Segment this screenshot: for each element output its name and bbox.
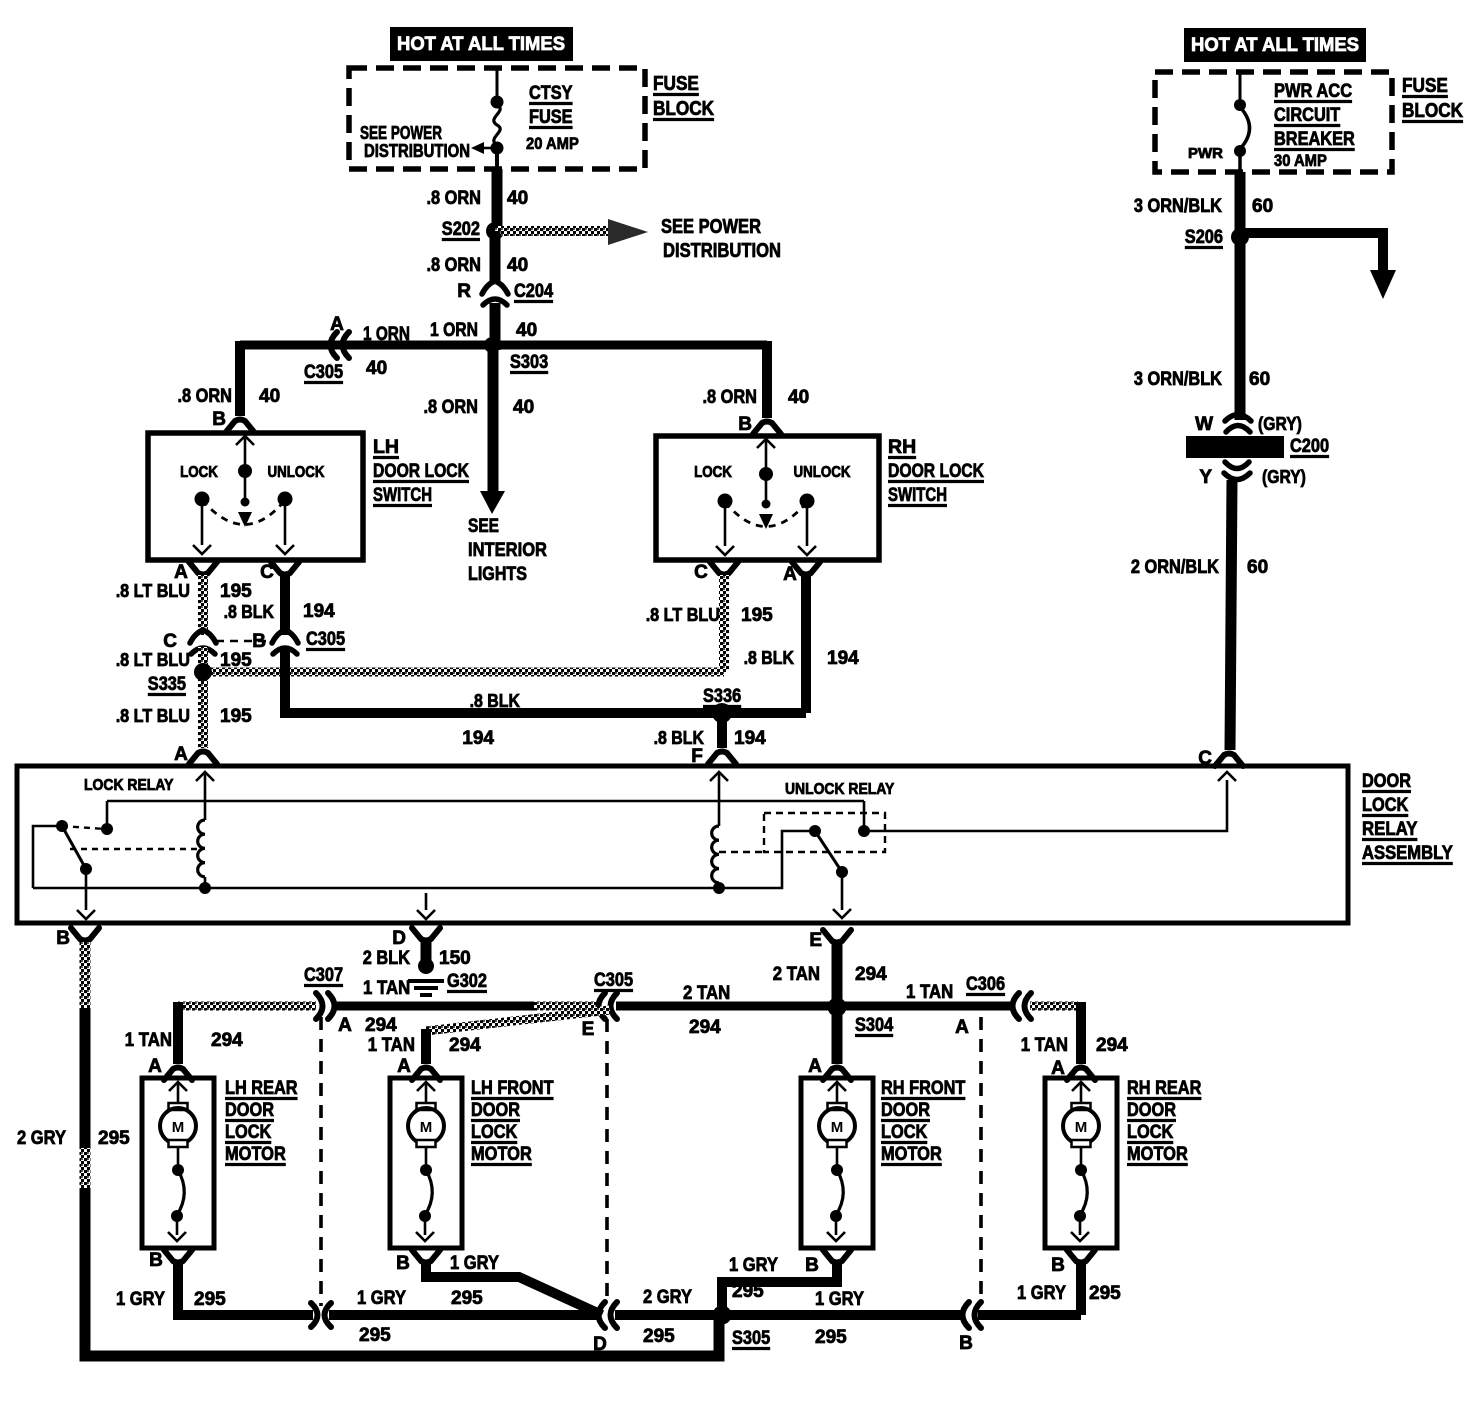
- svg-text:S202: S202: [442, 219, 480, 240]
- svg-text:LOCK: LOCK: [881, 1122, 928, 1143]
- splice S335: [194, 663, 212, 681]
- RH switch internal contacts: [757, 439, 775, 448]
- wire (LH rear B to connector): [178, 1310, 313, 1315]
- PWR ACC circuit breaker symbol: [1239, 74, 1242, 102]
- svg-text:294: 294: [211, 1030, 243, 1051]
- svg-text:DOOR: DOOR: [1362, 771, 1411, 792]
- connector C305 pin D (lower): [599, 1302, 606, 1328]
- svg-text:1 TAN: 1 TAN: [1021, 1035, 1068, 1056]
- LH FRONT motor M symbol: [417, 1103, 436, 1110]
- svg-text:294: 294: [855, 964, 887, 985]
- relay wire contact to pin C: [864, 780, 1227, 831]
- wire .8 ORN 40 (C305 to LH switch B): [235, 341, 245, 416]
- svg-text:LH REAR: LH REAR: [225, 1078, 298, 1099]
- svg-text:1 GRY: 1 GRY: [450, 1253, 499, 1274]
- svg-text:1 TAN: 1 TAN: [368, 1035, 415, 1056]
- svg-text:M: M: [831, 1119, 844, 1136]
- wire .8 ORN 40 (fuse to S202): [492, 169, 503, 228]
- svg-text:DOOR: DOOR: [471, 1100, 520, 1121]
- svg-text:1 GRY: 1 GRY: [116, 1289, 165, 1310]
- arrow branch from S206: [1240, 233, 1383, 272]
- svg-text:C305: C305: [306, 629, 345, 650]
- svg-text:40: 40: [259, 386, 280, 407]
- connector C200 body: [1186, 436, 1284, 458]
- wire 1 GRY 295 (LH rear B down): [173, 1263, 183, 1315]
- svg-text:60: 60: [1249, 369, 1270, 390]
- svg-text:.8 BLK: .8 BLK: [654, 727, 705, 748]
- wire 1 GRY 295 (S305 to RH boundary): [722, 1310, 962, 1320]
- door boundary dashed line (LH front): [605, 1019, 609, 1300]
- svg-text:E: E: [582, 1019, 595, 1040]
- svg-text:HOT AT ALL TIMES: HOT AT ALL TIMES: [1191, 34, 1359, 56]
- svg-text:2 BLK: 2 BLK: [363, 948, 410, 969]
- fuse block dashed box (right): [1155, 72, 1392, 172]
- svg-text:S305: S305: [732, 1328, 771, 1349]
- svg-text:DOOR LOCK: DOOR LOCK: [888, 460, 984, 482]
- relay wire NC to unlock contact: [107, 800, 864, 803]
- wire 3 ORN/BLK 60 (S206 to C200 W): [1235, 237, 1246, 420]
- svg-text:1 GRY: 1 GRY: [815, 1289, 864, 1310]
- svg-text:B: B: [56, 928, 70, 949]
- svg-text:.8 ORN: .8 ORN: [427, 255, 482, 276]
- svg-text:40: 40: [516, 320, 537, 341]
- RH REAR motor M symbol: [1072, 1103, 1091, 1110]
- svg-text:.8 LT BLU: .8 LT BLU: [646, 604, 720, 625]
- svg-text:RH REAR: RH REAR: [1127, 1078, 1202, 1099]
- svg-text:1 TAN: 1 TAN: [125, 1030, 172, 1051]
- banner HOT AT ALL TIMES (left): [390, 27, 573, 61]
- svg-text:UNLOCK: UNLOCK: [794, 464, 852, 481]
- LH REAR door lock motor box: [142, 1078, 214, 1248]
- unlock relay coil: [712, 826, 719, 883]
- svg-text:194: 194: [827, 648, 859, 669]
- svg-text:C305: C305: [594, 970, 633, 991]
- svg-text:3 ORN/BLK: 3 ORN/BLK: [1134, 196, 1222, 217]
- svg-text:294: 294: [365, 1015, 397, 1036]
- svg-text:C305: C305: [304, 362, 343, 383]
- door boundary dashed line (LH rear): [319, 1017, 323, 1306]
- unlock relay switch feed: [719, 831, 812, 888]
- wire .8 LT BLU 195 (C305 to S335): [198, 647, 208, 672]
- svg-text:SWITCH: SWITCH: [888, 484, 947, 506]
- wire 2 GRY 295 (relay B down left side): [80, 942, 91, 1012]
- svg-text:.8 BLK: .8 BLK: [744, 647, 795, 668]
- wire 1 GRY 295 (to C305 D): [329, 1310, 597, 1320]
- svg-text:.8 BLK: .8 BLK: [224, 601, 275, 622]
- svg-text:B: B: [252, 631, 266, 652]
- lock relay pin A arrow: [196, 772, 214, 781]
- svg-text:LH: LH: [373, 436, 399, 458]
- splice S202: [486, 222, 504, 240]
- wire 2 ORN/BLK 60 (C200 to relay C): [1230, 480, 1232, 750]
- svg-text:B: B: [396, 1253, 410, 1274]
- svg-text:CIRCUIT: CIRCUIT: [1274, 105, 1341, 126]
- RH FRONT motor internal switch: [836, 1147, 839, 1166]
- svg-text:INTERIOR: INTERIOR: [468, 540, 547, 561]
- svg-text:1 TAN: 1 TAN: [363, 978, 410, 999]
- fuse block dashed box (left): [349, 68, 645, 169]
- svg-text:195: 195: [220, 706, 252, 727]
- svg-text:A: A: [338, 1015, 352, 1036]
- wire .8 LT BLU 195 (LH switch A): [198, 575, 208, 635]
- wire .8 BLK 194 (S336 to relay F): [717, 713, 727, 748]
- svg-text:MOTOR: MOTOR: [881, 1144, 942, 1165]
- svg-text:60: 60: [1252, 196, 1273, 217]
- svg-text:195: 195: [741, 605, 773, 626]
- svg-text:B: B: [959, 1333, 973, 1354]
- svg-text:S335: S335: [148, 674, 187, 695]
- svg-text:BLOCK: BLOCK: [653, 98, 715, 120]
- svg-text:M: M: [1075, 1119, 1088, 1136]
- svg-text:LH FRONT: LH FRONT: [471, 1078, 554, 1099]
- splice S336: [712, 703, 732, 723]
- svg-text:(GRY): (GRY): [1262, 467, 1306, 487]
- svg-text:A: A: [955, 1017, 969, 1038]
- svg-text:B: B: [805, 1255, 819, 1276]
- svg-text:195: 195: [220, 581, 252, 602]
- svg-text:RH: RH: [888, 436, 916, 458]
- svg-text:20 AMP: 20 AMP: [526, 134, 579, 153]
- svg-text:LOCK RELAY: LOCK RELAY: [84, 777, 174, 794]
- arrow S202 to power distribution: [495, 226, 612, 236]
- svg-text:D: D: [392, 928, 406, 949]
- svg-text:CTSY: CTSY: [529, 83, 573, 104]
- svg-text:DISTRIBUTION: DISTRIBUTION: [364, 141, 470, 161]
- svg-text:A: A: [148, 1056, 162, 1077]
- svg-text:1 GRY: 1 GRY: [1017, 1283, 1066, 1304]
- wire .8 LT BLU 195 (S335 to relay A): [198, 672, 208, 748]
- svg-text:B: B: [212, 409, 226, 430]
- svg-text:A: A: [174, 744, 188, 765]
- svg-text:40: 40: [788, 387, 809, 408]
- svg-text:295: 295: [732, 1281, 764, 1302]
- svg-text:1 GRY: 1 GRY: [729, 1255, 778, 1276]
- svg-text:LOCK: LOCK: [225, 1122, 272, 1143]
- svg-text:PWR ACC: PWR ACC: [1274, 81, 1352, 102]
- wire .8 BLK 194 (C305 B to S336): [285, 647, 806, 713]
- svg-text:M: M: [420, 1119, 433, 1136]
- svg-text:.8 ORN: .8 ORN: [427, 188, 482, 209]
- lock relay coil: [198, 820, 205, 877]
- svg-text:C307: C307: [304, 965, 343, 986]
- wire 1 ORN 40 (C204 to S303): [490, 303, 501, 350]
- wire (S304 down to RH front motor): [832, 1007, 843, 1064]
- splice S303: [484, 337, 500, 353]
- svg-text:40: 40: [507, 188, 528, 209]
- svg-text:30 AMP: 30 AMP: [1274, 151, 1327, 170]
- svg-text:295: 295: [815, 1327, 847, 1348]
- svg-text:295: 295: [451, 1288, 483, 1309]
- svg-text:(GRY): (GRY): [1258, 414, 1302, 434]
- svg-text:2 GRY: 2 GRY: [643, 1287, 692, 1308]
- svg-text:294: 294: [449, 1035, 481, 1056]
- svg-text:SWITCH: SWITCH: [373, 484, 432, 506]
- svg-text:40: 40: [366, 358, 387, 379]
- ground G302: [418, 958, 434, 974]
- wire 1 TAN 294 (C307 to C305): [337, 1002, 534, 1011]
- splice S206: [1231, 228, 1249, 246]
- LH door lock switch U-LH box: [148, 433, 363, 560]
- svg-text:E: E: [809, 930, 822, 951]
- svg-text:LOCK: LOCK: [471, 1122, 518, 1143]
- door lock relay assembly box: [17, 766, 1348, 923]
- unlock relay arm to pin E: [815, 831, 842, 872]
- svg-text:W: W: [1195, 414, 1213, 435]
- door boundary dashed (C305): [216, 640, 270, 643]
- svg-text:.8 ORN: .8 ORN: [178, 386, 233, 407]
- svg-text:S304: S304: [855, 1015, 894, 1036]
- svg-text:1 GRY: 1 GRY: [357, 1288, 406, 1309]
- svg-text:DISTRIBUTION: DISTRIBUTION: [663, 240, 781, 262]
- svg-text:194: 194: [303, 601, 335, 622]
- svg-text:DOOR: DOOR: [225, 1100, 274, 1121]
- wire 1 TAN 294 (LH rear feed): [178, 1002, 316, 1011]
- lock relay arm to pin B: [62, 826, 86, 869]
- svg-text:295: 295: [98, 1128, 130, 1149]
- svg-text:LOCK: LOCK: [694, 464, 732, 481]
- svg-text:A: A: [808, 1056, 822, 1077]
- svg-text:UNLOCK RELAY: UNLOCK RELAY: [785, 781, 895, 798]
- svg-text:LOCK: LOCK: [1362, 795, 1409, 816]
- svg-text:RH FRONT: RH FRONT: [881, 1078, 966, 1099]
- lock relay switch: [56, 820, 68, 832]
- LH REAR motor M symbol: [169, 1103, 188, 1110]
- relay pin D arrow: [425, 893, 428, 910]
- svg-text:HOT AT ALL TIMES: HOT AT ALL TIMES: [397, 33, 565, 55]
- svg-text:.8 ORN: .8 ORN: [703, 387, 758, 408]
- RH FRONT door lock motor box: [801, 1078, 873, 1248]
- svg-text:2 TAN: 2 TAN: [683, 983, 730, 1004]
- wire 2 BLK 150 (relay D to ground): [421, 942, 432, 966]
- RH REAR motor internal switch: [1080, 1147, 1083, 1166]
- svg-text:SEE POWER: SEE POWER: [360, 123, 442, 143]
- svg-text:SEE POWER: SEE POWER: [661, 216, 761, 238]
- svg-text:DOOR: DOOR: [1127, 1100, 1176, 1121]
- svg-text:3 ORN/BLK: 3 ORN/BLK: [1134, 369, 1222, 390]
- svg-text:194: 194: [462, 728, 494, 749]
- unlock relay contact: [863, 801, 866, 831]
- svg-text:MOTOR: MOTOR: [1127, 1144, 1188, 1165]
- wire 2 TAN 294 (C305 to S304): [616, 1002, 837, 1011]
- svg-text:150: 150: [439, 948, 471, 969]
- svg-text:S303: S303: [510, 352, 548, 373]
- svg-text:294: 294: [1096, 1035, 1128, 1056]
- arrow to see interior lights: [480, 491, 505, 514]
- svg-text:LIGHTS: LIGHTS: [468, 564, 527, 585]
- svg-text:295: 295: [1089, 1283, 1121, 1304]
- LH REAR motor internal arrow: [169, 1082, 187, 1091]
- svg-text:295: 295: [643, 1326, 675, 1347]
- svg-text:295: 295: [359, 1325, 391, 1346]
- wire 1 TAN 294 (C305 to LH front motor): [426, 1010, 610, 1031]
- wire .8 BLK 194 (LH switch C): [280, 575, 290, 635]
- unlock relay pin F arrow: [710, 772, 728, 781]
- svg-text:UNLOCK: UNLOCK: [268, 464, 326, 481]
- svg-text:.8 BLK: .8 BLK: [470, 690, 521, 711]
- relay internal bus wire: [33, 887, 719, 890]
- svg-text:1 ORN: 1 ORN: [363, 324, 410, 345]
- LH REAR motor internal switch: [177, 1147, 180, 1166]
- wire .8 ORN 40 (S303 down to interior lights): [488, 345, 499, 492]
- wire .8 ORN 40 (S303 to RH switch B): [492, 341, 767, 350]
- svg-text:C: C: [694, 562, 708, 583]
- door boundary dashed line (RH rear): [979, 1017, 983, 1304]
- svg-text:S336: S336: [703, 686, 741, 707]
- svg-text:.8 LT BLU: .8 LT BLU: [116, 649, 190, 670]
- svg-text:194: 194: [734, 728, 766, 749]
- unlock relay dashed box: [764, 813, 885, 852]
- lock relay linkage dashed: [70, 848, 197, 850]
- svg-text:PWR: PWR: [1188, 145, 1223, 162]
- LH FRONT door lock motor box: [390, 1078, 462, 1248]
- svg-text:M: M: [172, 1119, 185, 1136]
- svg-text:S206: S206: [1185, 227, 1223, 248]
- svg-text:MOTOR: MOTOR: [471, 1144, 532, 1165]
- svg-text:60: 60: [1247, 557, 1268, 578]
- svg-text:RELAY: RELAY: [1362, 819, 1418, 840]
- svg-text:D: D: [593, 1334, 607, 1355]
- wire 1 ORN 40 (S303 to C305 A): [240, 341, 492, 350]
- splice S304 dot: [828, 998, 847, 1017]
- wire 1 TAN 294 (S304 to C306): [837, 1002, 1010, 1011]
- wire .8 LT BLU 195 (RH switch C to S335 line): [719, 575, 729, 672]
- LH switch internal contacts: [236, 436, 254, 445]
- svg-text:2 GRY: 2 GRY: [17, 1128, 66, 1149]
- RH FRONT motor internal arrow: [828, 1082, 846, 1091]
- svg-text:A: A: [397, 1056, 411, 1077]
- wire .8 ORN 40 (S202 to C204): [490, 231, 501, 283]
- wire lt blu (S335 to RH switch C): [203, 668, 724, 677]
- connector (RH rear door boundary): [963, 1302, 970, 1328]
- svg-text:2 TAN: 2 TAN: [773, 964, 820, 985]
- svg-text:.8 LT BLU: .8 LT BLU: [116, 580, 190, 601]
- svg-text:FUSE: FUSE: [529, 107, 573, 128]
- svg-text:C200: C200: [1290, 436, 1329, 457]
- svg-text:40: 40: [507, 255, 528, 276]
- svg-text:295: 295: [194, 1289, 226, 1310]
- banner HOT AT ALL TIMES (right): [1184, 28, 1366, 62]
- svg-text:ASSEMBLY: ASSEMBLY: [1362, 843, 1453, 864]
- svg-text:40: 40: [513, 397, 534, 418]
- svg-text:294: 294: [689, 1017, 721, 1038]
- wire 2 TAN 294 (relay E to S304): [832, 944, 843, 1007]
- svg-text:B: B: [1051, 1255, 1065, 1276]
- svg-text:2 ORN/BLK: 2 ORN/BLK: [1131, 557, 1219, 578]
- svg-text:LOCK: LOCK: [1127, 1122, 1174, 1143]
- svg-text:C204: C204: [514, 281, 553, 302]
- svg-text:B: B: [149, 1250, 163, 1271]
- svg-text:BREAKER: BREAKER: [1274, 129, 1355, 150]
- svg-text:1 TAN: 1 TAN: [906, 982, 953, 1003]
- wire 1 TAN 294 (C306 to RH rear motor): [1030, 1002, 1078, 1011]
- wire 1 GRY (LH front B jog): [426, 1262, 602, 1315]
- wire .8 BLK 194 (RH switch A): [801, 575, 811, 713]
- svg-text:MOTOR: MOTOR: [225, 1144, 286, 1165]
- fuse CTSY 20 AMP symbol: [496, 70, 499, 100]
- svg-text:Y: Y: [1199, 467, 1212, 488]
- svg-text:FUSE: FUSE: [1402, 75, 1448, 97]
- LH FRONT motor internal arrow: [417, 1082, 435, 1091]
- svg-text:FUSE: FUSE: [653, 73, 699, 95]
- wire 1 GRY (RH front B jog): [722, 1263, 837, 1315]
- splice S305 dot: [713, 1306, 732, 1325]
- svg-text:R: R: [457, 281, 471, 302]
- svg-text:BLOCK: BLOCK: [1402, 100, 1464, 122]
- RH door lock switch box: [656, 436, 879, 560]
- connector (LH rear door boundary): [311, 1303, 318, 1327]
- arrow to see power distribution (inside fuse block): [484, 147, 497, 150]
- svg-text:1 ORN: 1 ORN: [430, 320, 478, 341]
- RH REAR motor internal arrow: [1072, 1082, 1090, 1091]
- svg-text:LOCK: LOCK: [180, 464, 218, 481]
- svg-text:B: B: [738, 414, 752, 435]
- svg-text:SEE: SEE: [468, 516, 499, 537]
- wire 2 GRY 295 (D to S305): [615, 1310, 717, 1320]
- svg-text:G302: G302: [447, 971, 487, 992]
- svg-text:DOOR LOCK: DOOR LOCK: [373, 460, 469, 482]
- svg-text:C306: C306: [966, 974, 1005, 995]
- wire 3 ORN/BLK 60 (breaker to S206): [1235, 172, 1246, 233]
- wire 1 GRY 295 (to RH rear B): [978, 1310, 1081, 1320]
- RH FRONT motor M symbol: [828, 1103, 847, 1110]
- RH REAR door lock motor box: [1045, 1078, 1117, 1248]
- svg-text:.8 LT BLU: .8 LT BLU: [116, 705, 190, 726]
- LH FRONT motor internal switch: [425, 1147, 428, 1166]
- svg-text:DOOR: DOOR: [881, 1100, 930, 1121]
- svg-text:.8 ORN: .8 ORN: [424, 397, 479, 418]
